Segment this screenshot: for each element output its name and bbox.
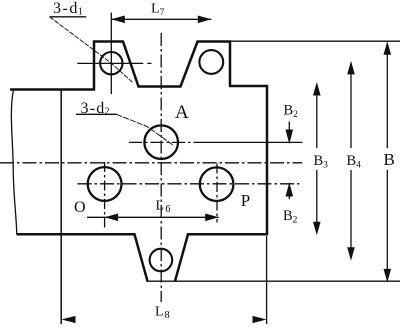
svg-text:P: P xyxy=(241,191,250,210)
centerline of holes O and P xyxy=(78,183,303,185)
dimension B xyxy=(384,41,392,282)
horizontal centerline of top-left bolt hole xyxy=(77,62,151,64)
L8 right extension line xyxy=(266,236,268,324)
bolt hole top-right xyxy=(199,50,223,74)
horizontal main centerline xyxy=(0,162,302,164)
dimension B4 xyxy=(347,61,355,261)
bottom ear extension line xyxy=(147,280,400,282)
vertical main centerline xyxy=(160,33,162,302)
dimension L6 xyxy=(87,214,219,222)
svg-text:A: A xyxy=(175,102,189,123)
dimension B3 xyxy=(313,82,321,235)
vertical centerline of hole P xyxy=(216,164,218,223)
top edge extension line xyxy=(230,40,400,42)
vertical centerline of hole O xyxy=(104,162,106,228)
leader 3-d1 xyxy=(50,17,133,83)
port hole P xyxy=(200,167,234,201)
extension line from A centerline xyxy=(200,141,302,143)
svg-text:B: B xyxy=(384,150,395,169)
inner body edge / L8 left extension xyxy=(60,90,62,325)
dimension B2 lower xyxy=(286,182,294,199)
dimension B2 upper xyxy=(286,122,294,145)
bolt hole bottom xyxy=(150,249,173,272)
body outline xyxy=(10,42,267,282)
centerline of hole A xyxy=(129,141,200,143)
dimension L7 xyxy=(111,16,211,24)
dimension L8 xyxy=(62,316,267,323)
port hole O xyxy=(88,167,122,201)
bolt hole top-left xyxy=(100,52,122,74)
vertical centerline of top-left bolt hole / L7 left extension xyxy=(110,13,112,95)
svg-text:O: O xyxy=(74,199,86,216)
leader 3-d2 xyxy=(76,114,173,145)
break line (wavy left edge) xyxy=(11,90,16,235)
port hole A xyxy=(144,125,178,159)
